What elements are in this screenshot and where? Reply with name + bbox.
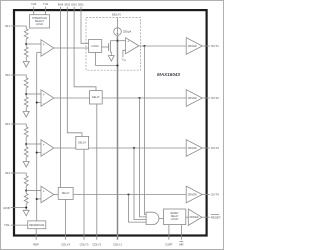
svg-text:CSRT: CSRT bbox=[165, 242, 173, 246]
wire divider bottom ch1 bbox=[25, 57, 27, 61]
svg-text:+: + bbox=[127, 40, 129, 44]
comparator CMP2 bbox=[41, 90, 54, 107]
transistor Q1 discharge switch bbox=[108, 43, 110, 51]
op-amp U2 delay comparator bbox=[126, 38, 139, 54]
wire IN3 input bbox=[11, 124, 27, 127]
driver buffer OUT2 bbox=[186, 90, 202, 107]
wire reference bus vertical bbox=[36, 53, 38, 221]
reset delay logic block bbox=[164, 209, 186, 225]
wire REF output to bottom pin bbox=[35, 229, 37, 240]
svg-text:DRIVER: DRIVER bbox=[190, 217, 199, 219]
wire reset logic to driver bbox=[186, 216, 189, 218]
wire tap to comparator ch2 bbox=[26, 93, 41, 95]
node ref bus ch2 bbox=[36, 101, 38, 103]
AND gate U3 bbox=[146, 212, 159, 224]
resistor R2A divider upper bbox=[24, 78, 28, 88]
threshold select logic block bbox=[30, 15, 50, 28]
wire divider bottom ch3 bbox=[25, 157, 27, 161]
svg-text:DRIVER: DRIVER bbox=[188, 46, 197, 48]
wire CDLY3 bbox=[83, 149, 85, 240]
ground divider ch4 bbox=[23, 210, 29, 216]
wire tap to comparator ch3 bbox=[26, 143, 41, 145]
wire TOL pin bbox=[11, 224, 28, 226]
svg-text:LOGIC: LOGIC bbox=[171, 218, 179, 221]
logic block U1 bbox=[89, 39, 102, 52]
wire comparator minus input ch1 bbox=[37, 52, 41, 54]
svg-text:MR: MR bbox=[179, 242, 183, 246]
svg-text:−: − bbox=[43, 102, 45, 106]
driver buffer OUT3 bbox=[186, 140, 202, 157]
svg-text:IN1: IN1 bbox=[5, 24, 10, 28]
svg-text:250µA: 250µA bbox=[123, 30, 131, 34]
wire tap to comparator ch4 bbox=[26, 190, 41, 192]
svg-text:+: + bbox=[43, 143, 45, 147]
wire CMP4 to D4 bbox=[54, 194, 58, 196]
wire delay comparator output bbox=[139, 45, 186, 47]
ground divider ch3 bbox=[23, 162, 29, 168]
wire timing node to comparator plus bbox=[118, 40, 126, 42]
wire D4 output bbox=[73, 194, 186, 196]
resistor R1B divider lower bbox=[24, 47, 28, 57]
svg-text:LOGIC: LOGIC bbox=[91, 45, 99, 48]
svg-text:OUT1: OUT1 bbox=[211, 44, 219, 48]
wire comparator minus input ch4 bbox=[37, 198, 41, 200]
ground divider ch2 bbox=[23, 112, 29, 118]
wire ch2 tap to AND bbox=[140, 98, 147, 217]
svg-text:OUT2: OUT2 bbox=[211, 96, 219, 100]
wire delay comparator minus stub bbox=[123, 50, 126, 57]
wire ch3 tap to AND bbox=[134, 148, 146, 220]
wire divider tap segment ch2 bbox=[25, 88, 27, 97]
driver buffer OUT4 bbox=[186, 186, 202, 203]
wire IN2 input bbox=[11, 75, 27, 78]
wire current source top stub bbox=[117, 18, 119, 28]
svg-text:REF: REF bbox=[33, 242, 39, 246]
wire tap to comparator ch1 bbox=[26, 43, 41, 45]
svg-text:OUT3: OUT3 bbox=[211, 146, 219, 150]
svg-text:−: − bbox=[43, 152, 45, 156]
wire OUT3 output bbox=[202, 147, 210, 149]
svg-text:DRIVER: DRIVER bbox=[188, 98, 197, 100]
delay block D2 bbox=[90, 91, 103, 104]
wire divider tap segment ch4 bbox=[25, 186, 27, 193]
svg-text:LOGIC: LOGIC bbox=[36, 23, 44, 26]
comparator CMP1 bbox=[41, 40, 54, 57]
resistor R4A divider upper bbox=[24, 176, 28, 186]
node logic sense tap bbox=[116, 64, 118, 66]
wire MR pin bbox=[180, 225, 182, 240]
node ref bus ch4 bbox=[36, 198, 38, 200]
node GND junction bbox=[25, 207, 27, 209]
svg-text:TOL: TOL bbox=[4, 223, 10, 227]
svg-text:TH1: TH1 bbox=[43, 2, 49, 6]
comparator CMP4 bbox=[41, 186, 54, 203]
wire GND pin bbox=[11, 207, 27, 209]
svg-text:IN3: IN3 bbox=[5, 122, 10, 126]
node ch2 reset tap bbox=[138, 97, 140, 99]
svg-text:MAX16043: MAX16043 bbox=[157, 72, 180, 77]
wire comparator minus input ch3 bbox=[37, 152, 41, 154]
wire D2 output bbox=[102, 97, 186, 99]
wire ch1 tap to AND bbox=[144, 46, 146, 214]
svg-text:OUT4: OUT4 bbox=[211, 193, 219, 197]
svg-text:−: − bbox=[43, 52, 45, 56]
node ch3 reset tap bbox=[133, 147, 135, 149]
ground divider ch1 bbox=[23, 62, 29, 68]
node ref bus ch3 bbox=[36, 151, 38, 153]
wire divider bottom ch2 bbox=[25, 107, 27, 111]
svg-text:DRIVER: DRIVER bbox=[188, 148, 197, 150]
wire IN1 input bbox=[11, 26, 27, 29]
wire Q1 drain bbox=[110, 40, 117, 42]
node ch1 reset tap bbox=[143, 45, 145, 47]
svg-text:VTH: VTH bbox=[122, 59, 127, 62]
wire divider tap segment ch1 bbox=[25, 39, 27, 47]
wire CMP2 to D2 bbox=[54, 97, 90, 99]
svg-text:EN3: EN3 bbox=[65, 2, 71, 6]
svg-text:DRIVER: DRIVER bbox=[188, 195, 197, 197]
wire ch4 tap to AND bbox=[129, 195, 147, 223]
node timing comparator tap bbox=[116, 40, 118, 42]
svg-text:REFERENCE: REFERENCE bbox=[29, 224, 44, 227]
wire CSRT pin bbox=[168, 225, 170, 240]
resistor R3B divider lower bbox=[24, 147, 28, 157]
wire timing node vertical CDLY1 bbox=[117, 36, 119, 240]
resistor R3A divider upper bbox=[24, 127, 28, 137]
svg-text:TH0: TH0 bbox=[31, 2, 37, 6]
wire IN4 input bbox=[11, 173, 27, 176]
svg-text:IN2: IN2 bbox=[5, 73, 10, 77]
wire CMP1 output to logic bbox=[54, 47, 89, 49]
wire Q1 source bbox=[109, 52, 112, 55]
wire CDLY2 bbox=[96, 104, 98, 240]
svg-text:CDLY3: CDLY3 bbox=[80, 242, 89, 246]
svg-text:+: + bbox=[43, 93, 45, 97]
driver buffer OUT1 bbox=[186, 38, 202, 55]
svg-text:EN1: EN1 bbox=[78, 2, 84, 6]
node divider tap ch2 bbox=[25, 93, 27, 95]
wire AND output bbox=[159, 217, 164, 219]
wire D3 output bbox=[89, 147, 187, 149]
node divider tap ch3 bbox=[25, 143, 27, 145]
svg-text:RESET: RESET bbox=[211, 215, 221, 219]
wire CDLY4 bbox=[65, 199, 67, 239]
svg-text:IN4: IN4 bbox=[5, 171, 10, 175]
reference block bbox=[28, 221, 46, 229]
current source I1 bbox=[114, 28, 122, 36]
resistor R1A divider upper bbox=[24, 29, 28, 39]
svg-text:EN2: EN2 bbox=[71, 2, 77, 6]
delay block D3 bbox=[76, 136, 89, 149]
wire divider tap segment ch3 bbox=[25, 137, 27, 147]
svg-text:GND: GND bbox=[3, 206, 11, 210]
ground Q1 source bbox=[108, 56, 114, 62]
svg-text:EN4: EN4 bbox=[58, 2, 64, 6]
svg-text:DELAY: DELAY bbox=[112, 13, 121, 17]
svg-text:DELAY: DELAY bbox=[62, 192, 70, 195]
svg-text:CDLY2: CDLY2 bbox=[92, 242, 101, 246]
node divider tap ch1 bbox=[25, 43, 27, 45]
svg-text:+: + bbox=[43, 43, 45, 47]
svg-text:+: + bbox=[43, 190, 45, 194]
wire OUT1 output bbox=[202, 45, 210, 47]
delay block dashed boundary bbox=[86, 18, 141, 71]
IC outline main box bbox=[14, 10, 207, 235]
svg-text:CDLY4: CDLY4 bbox=[61, 242, 70, 246]
wire logic sense to timing node bbox=[96, 53, 118, 66]
node divider tap ch4 bbox=[25, 189, 27, 191]
driver buffer RESET bbox=[188, 209, 202, 225]
svg-text:DELAY: DELAY bbox=[78, 142, 86, 145]
resistor R2B divider lower bbox=[24, 97, 28, 107]
page frame bbox=[1, 1, 224, 250]
wire logic to gate bbox=[102, 46, 109, 48]
svg-text:CDLY1: CDLY1 bbox=[113, 242, 122, 246]
delay block D4 bbox=[58, 187, 73, 199]
pin TH0 bbox=[33, 7, 35, 15]
wire divider bottom ch4 bbox=[25, 204, 27, 211]
wire RESET output bbox=[202, 216, 210, 218]
resistor R4B divider lower bbox=[24, 193, 28, 203]
wire CMP3 to D3 bbox=[54, 147, 76, 149]
pin TH1 bbox=[45, 7, 47, 15]
wire OUT4 output bbox=[202, 194, 210, 196]
svg-text:DELAY: DELAY bbox=[92, 96, 100, 99]
svg-text:−: − bbox=[43, 198, 45, 202]
node ch4 reset tap bbox=[127, 193, 129, 195]
wire comparator minus input ch2 bbox=[37, 102, 41, 104]
wire OUT2 output bbox=[202, 97, 210, 99]
comparator CMP3 bbox=[41, 140, 54, 157]
